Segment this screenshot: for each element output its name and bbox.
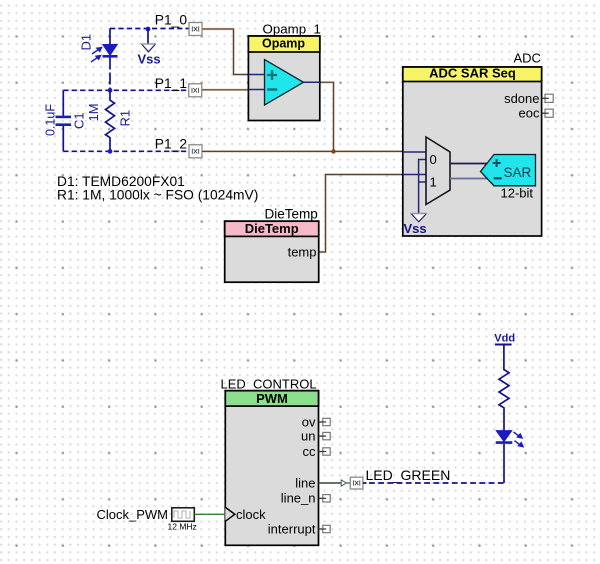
op-amp component Opamp_1 <box>248 22 321 121</box>
wire dashed net P1_1 (C1/R1 top row to pin P1_1) <box>63 89 189 91</box>
power Vdd <box>494 333 515 345</box>
DieTemp component <box>225 207 319 283</box>
LED D (green LED) <box>496 431 525 483</box>
wire mux output + to SAR <box>450 163 488 165</box>
svg-text:clock: clock <box>236 507 266 522</box>
wire inside stub - input <box>248 89 264 91</box>
node junction R1 top <box>108 88 113 93</box>
wire P1_1 to opamp - input (orange) <box>202 89 249 91</box>
wire dashed net P1_2 (C1/R1 bottom row to pin P1_2) <box>63 150 189 152</box>
svg-text:DieTemp: DieTemp <box>245 221 299 236</box>
wire dashed LED_GREEN net to LED branch <box>363 482 504 484</box>
svg-text:line: line <box>295 475 315 490</box>
pin P1_2 <box>155 137 202 158</box>
wire opamp output down to P1_2 net (orange) <box>320 82 334 151</box>
wire P1_2 to ADC mux input 0 (orange) <box>202 150 403 152</box>
svg-text:Vss: Vss <box>138 51 161 66</box>
wire PWM line output (dark green) <box>319 482 342 484</box>
mux (input multiplexer) <box>426 137 450 205</box>
node junction at Vss tap on P1_0 net <box>146 27 151 32</box>
svg-text:D1: TEMD6200FX01: D1: TEMD6200FX01 <box>57 174 185 189</box>
resistor (LED series, unlabeled) <box>499 345 509 431</box>
node junction R1 bottom <box>108 149 113 154</box>
resistor R1 <box>86 90 133 151</box>
clock Clock_PWM <box>97 507 197 532</box>
svg-text:PWM: PWM <box>256 391 288 406</box>
svg-text:R1: R1 <box>118 110 133 127</box>
ground Vss (top left) <box>138 29 161 67</box>
svg-text:1M: 1M <box>86 103 101 121</box>
photodiode D1 <box>79 29 118 91</box>
wire DieTemp temp output up to ADC mux input 1 (orange) <box>319 175 403 253</box>
wire inside stub output <box>304 81 320 83</box>
svg-text:Clock_PWM: Clock_PWM <box>97 507 169 522</box>
svg-text:Vdd: Vdd <box>494 333 515 345</box>
wire mux ch0 input <box>403 151 426 153</box>
svg-text:ov: ov <box>302 414 316 429</box>
wire P1_0 to opamp + input (orange) <box>202 29 248 75</box>
ADC component (ADC SAR Seq) <box>403 51 553 237</box>
svg-text:LED_CONTROL: LED_CONTROL <box>221 377 317 392</box>
svg-text:Vss: Vss <box>404 221 427 236</box>
svg-text:ADC SAR Seq: ADC SAR Seq <box>429 66 516 81</box>
op-amp triangle symbol <box>265 60 304 106</box>
svg-text:sdone: sdone <box>504 91 539 106</box>
SAR core symbol <box>481 155 536 186</box>
svg-text:interrupt: interrupt <box>268 521 316 536</box>
svg-text:un: un <box>301 428 315 443</box>
svg-text:D1: D1 <box>79 34 94 51</box>
pin P1_1 <box>155 76 202 97</box>
ground Vss (inside ADC) <box>411 214 427 222</box>
svg-text:P1_0: P1_0 <box>155 13 188 28</box>
wire mux ch1 input <box>403 174 426 176</box>
wire Vss bus to mux negative inputs <box>419 160 426 214</box>
svg-text:0: 0 <box>430 152 437 167</box>
svg-text:1: 1 <box>430 175 437 190</box>
node arrow terminator on line net <box>341 480 346 486</box>
svg-text:ADC: ADC <box>514 51 541 66</box>
svg-text:DieTemp: DieTemp <box>265 207 318 222</box>
svg-text:P1_2: P1_2 <box>155 137 187 152</box>
svg-text:12-bit: 12-bit <box>501 186 534 201</box>
svg-text:LED_GREEN: LED_GREEN <box>366 467 451 483</box>
svg-text:C1: C1 <box>72 112 87 129</box>
svg-text:eoc: eoc <box>519 106 540 121</box>
capacitor C1 <box>44 90 87 151</box>
wire inside stub + input <box>248 74 264 76</box>
input clock chevron <box>225 507 235 521</box>
wire clock to PWM (green) <box>194 513 225 515</box>
svg-text:R1: 1M, 1000lx ~ FSO (1024mV): R1: 1M, 1000lx ~ FSO (1024mV) <box>57 188 258 203</box>
pin LED_GREEN <box>347 467 451 489</box>
svg-text:Opamp_1: Opamp_1 <box>263 22 321 37</box>
svg-text:12 MHz: 12 MHz <box>168 521 197 531</box>
svg-text:line_n: line_n <box>281 491 316 506</box>
svg-text:P1_1: P1_1 <box>155 76 187 91</box>
svg-text:SAR: SAR <box>504 165 532 180</box>
node junction opamp output joins P1_2 net <box>331 149 335 153</box>
svg-text:Opamp: Opamp <box>262 36 305 50</box>
svg-text:0.1uF: 0.1uF <box>44 104 58 136</box>
text notes D1/R1 <box>57 174 258 203</box>
PWM component LED_CONTROL <box>221 377 331 546</box>
wire dashed net P1_0 (photodiode cathode to pin P1_0) <box>110 28 189 30</box>
svg-text:cc: cc <box>303 444 317 459</box>
pin P1_0 <box>155 13 202 36</box>
svg-text:temp: temp <box>288 244 317 259</box>
wire mux output - to SAR <box>450 178 491 180</box>
